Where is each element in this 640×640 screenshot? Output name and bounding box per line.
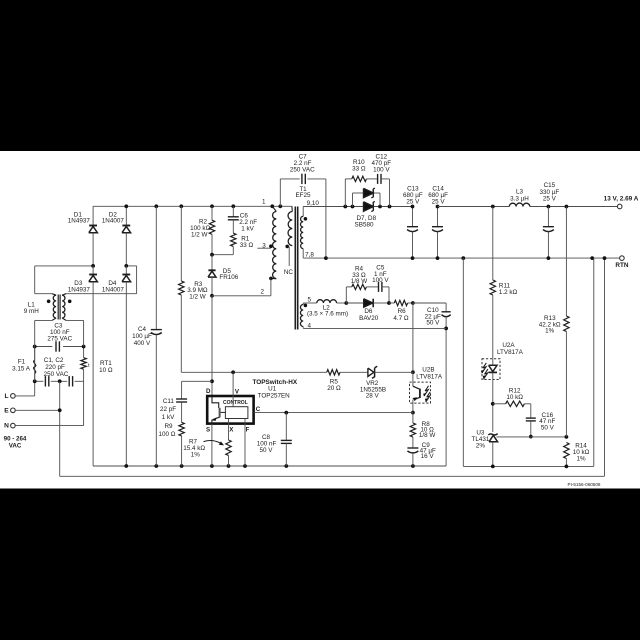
- wire HV+ rail: [93, 205, 292, 207]
- wire N to right column: [15, 425, 83, 427]
- wire secondary 9,10 rail: [303, 206, 363, 208]
- resistor R6: [394, 300, 407, 305]
- svg-text:1N4007: 1N4007: [102, 287, 125, 294]
- wire E to earth node: [15, 409, 60, 411]
- resistor R3: [180, 206, 182, 281]
- wire primary return rail: [93, 465, 446, 467]
- svg-text:SB580: SB580: [355, 222, 374, 229]
- svg-text:1N4007: 1N4007: [102, 218, 125, 225]
- wire AC node A: [35, 265, 93, 267]
- diode D2: [125, 206, 127, 225]
- svg-text:100 V: 100 V: [373, 167, 390, 174]
- inductor L3: [509, 203, 530, 206]
- svg-text:16 V: 16 V: [421, 453, 435, 460]
- svg-text:EF25: EF25: [295, 192, 311, 199]
- wire C3 box left side: [34, 347, 36, 382]
- svg-text:1N4937: 1N4937: [68, 218, 91, 225]
- capacitor C6: [232, 206, 234, 217]
- svg-text:1 kV: 1 kV: [241, 226, 254, 233]
- shunt regulator U3 TL431: [488, 434, 497, 435]
- svg-text:25 V: 25 V: [432, 199, 446, 206]
- U1 S pin wire: [211, 424, 213, 466]
- U1 V pin wire: [232, 372, 234, 396]
- svg-text:CONTROL: CONTROL: [223, 400, 248, 406]
- capacitor C11 resistor R9 branch: [182, 380, 212, 382]
- capacitor C16: [526, 417, 536, 419]
- svg-text:1/2 W: 1/2 W: [191, 231, 208, 238]
- svg-text:1N4937: 1N4937: [68, 287, 91, 294]
- resistor R5: [181, 371, 326, 373]
- svg-text:50 V: 50 V: [426, 320, 440, 327]
- svg-text:TOP257EN: TOP257EN: [258, 392, 291, 399]
- terminal RTN: [620, 256, 625, 261]
- capacitor C10: [445, 303, 447, 311]
- svg-text:U2B: U2B: [422, 367, 434, 374]
- svg-text:1%: 1%: [191, 451, 201, 458]
- capacitor C14: [437, 207, 439, 227]
- output terminal 13V: [617, 204, 622, 209]
- svg-text:N: N: [4, 423, 9, 430]
- svg-text:1/8 W: 1/8 W: [351, 278, 368, 285]
- capacitor C13: [412, 207, 414, 227]
- svg-text:VAC: VAC: [9, 443, 22, 450]
- wire earth vertical: [59, 381, 61, 476]
- choke L1: [34, 266, 36, 294]
- svg-text:13 V, 2.69 A: 13 V, 2.69 A: [604, 196, 639, 203]
- svg-text:50 V: 50 V: [260, 447, 274, 454]
- wire AC node B: [126, 265, 136, 267]
- wire L to fuse column: [15, 395, 35, 397]
- wire bias pin4: [303, 327, 446, 329]
- wire to C10: [413, 302, 446, 304]
- fuse F1: [34, 347, 36, 361]
- wire L3 to output: [530, 206, 618, 208]
- diode D3: [92, 266, 94, 275]
- wire RTN rail: [303, 257, 619, 259]
- U1 X pin wire / resistor R7: [228, 419, 230, 440]
- svg-text:L: L: [4, 393, 8, 400]
- diode D4: [125, 266, 127, 275]
- T1 primary tap 3: [269, 244, 273, 248]
- svg-text:4.7 Ω: 4.7 Ω: [393, 315, 409, 322]
- snubber R4 C5 branch: [345, 287, 347, 303]
- wire LED to TL431: [492, 380, 494, 432]
- diode D7 parallel branch: [352, 193, 354, 207]
- T1 secondary winding: [302, 207, 304, 217]
- wire bias pin5: [303, 302, 317, 304]
- capacitor C8: [285, 413, 287, 441]
- wire drain node: [211, 296, 213, 396]
- wire bias to opto collector: [412, 303, 414, 372]
- svg-text:R9: R9: [164, 423, 173, 430]
- T1 bias winding: [302, 303, 304, 305]
- svg-text:100 Ω: 100 Ω: [159, 431, 176, 438]
- svg-text:1/2 W: 1/2 W: [189, 294, 206, 301]
- svg-text:28 V: 28 V: [366, 393, 380, 400]
- wire to L3: [438, 206, 510, 208]
- resistor R2: [211, 206, 213, 220]
- inductor L2: [317, 300, 337, 303]
- R7 pointer arrow: [204, 441, 221, 444]
- svg-text:C4: C4: [138, 326, 147, 333]
- svg-text:20 Ω: 20 Ω: [327, 385, 341, 392]
- svg-text:3.15 A: 3.15 A: [12, 365, 31, 372]
- svg-text:10 kΩ: 10 kΩ: [506, 394, 523, 401]
- snubber R10 C12 branch: [344, 179, 346, 207]
- svg-text:FR106: FR106: [219, 274, 238, 281]
- svg-text:(3.5 × 7.6 mm): (3.5 × 7.6 mm): [307, 311, 348, 318]
- svg-text:C1, C2: C1, C2: [44, 357, 64, 364]
- svg-text:2%: 2%: [476, 443, 486, 450]
- svg-text:250 VAC: 250 VAC: [290, 166, 315, 173]
- resistor R11: [492, 207, 494, 281]
- capacitor C7: [279, 179, 281, 206]
- svg-text:9 mH: 9 mH: [24, 308, 39, 315]
- optocoupler U2A LED: [482, 359, 500, 380]
- optocoupler U2B: [410, 382, 431, 403]
- svg-text:3.3 µH: 3.3 µH: [510, 196, 529, 203]
- T1 second half winding NC: [291, 205, 293, 207]
- svg-text:7,8: 7,8: [305, 252, 314, 259]
- svg-text:275 VAC: 275 VAC: [47, 335, 72, 342]
- T1 primary winding: [272, 206, 276, 211]
- diode D8: [364, 202, 374, 212]
- svg-text:1%: 1%: [576, 456, 586, 463]
- svg-text:LTV817A: LTV817A: [497, 349, 524, 356]
- wire REF line to divider: [531, 436, 567, 438]
- svg-text:LTV817A: LTV817A: [416, 374, 443, 381]
- svg-text:400 V: 400 V: [134, 340, 151, 347]
- svg-text:E: E: [4, 407, 9, 414]
- svg-text:33 Ω: 33 Ω: [240, 242, 254, 249]
- svg-text:1.2 kΩ: 1.2 kΩ: [499, 289, 518, 296]
- svg-text:C11: C11: [163, 398, 175, 405]
- svg-text:10 Ω: 10 Ω: [99, 367, 113, 374]
- diode D5: [211, 255, 213, 271]
- capacitors C1 C2: [35, 380, 44, 382]
- svg-text:50 V: 50 V: [541, 425, 555, 432]
- T1 core: [294, 207, 296, 330]
- capacitor C15: [547, 207, 549, 227]
- capacitor C9: [412, 437, 414, 447]
- svg-text:25 V: 25 V: [406, 199, 420, 206]
- svg-text:9,10: 9,10: [307, 200, 320, 207]
- svg-text:F: F: [246, 427, 250, 434]
- zener VR2: [368, 368, 374, 376]
- thermistor RT1: [83, 347, 85, 358]
- svg-text:1: 1: [262, 198, 266, 205]
- capacitor C4: [155, 206, 157, 330]
- svg-text:25 V: 25 V: [543, 195, 557, 202]
- U1 internal mosfet: [212, 396, 219, 408]
- svg-text:33 Ω: 33 Ω: [352, 166, 366, 173]
- svg-text:S: S: [206, 426, 210, 433]
- L1 polarity dots: [47, 300, 51, 304]
- svg-text:1/8 W: 1/8 W: [419, 432, 436, 439]
- resistor R14: [564, 443, 569, 459]
- resistor R12: [493, 403, 506, 405]
- svg-text:2: 2: [261, 288, 265, 295]
- svg-text:1 kV: 1 kV: [162, 414, 175, 421]
- U1 F pin wire: [244, 419, 246, 466]
- svg-text:100 V: 100 V: [372, 277, 389, 284]
- svg-text:NC: NC: [284, 269, 294, 276]
- svg-text:PI-5156-060508: PI-5156-060508: [568, 482, 601, 487]
- U1 C pin wire: [254, 412, 413, 414]
- resistor R8: [412, 413, 414, 423]
- L1 core: [57, 295, 59, 320]
- diode D1: [92, 206, 94, 225]
- svg-text:BAV20: BAV20: [359, 315, 379, 322]
- resistor R13: [565, 207, 567, 317]
- diode D6: [346, 302, 363, 304]
- svg-text:1%: 1%: [545, 328, 555, 335]
- IC U1 TOP257EN: [207, 396, 253, 424]
- svg-text:F1: F1: [18, 358, 26, 365]
- svg-text:D: D: [206, 388, 211, 395]
- resistor R1: [231, 233, 236, 246]
- wire earth run to RTN: [60, 475, 605, 477]
- svg-text:100 µF: 100 µF: [132, 333, 152, 340]
- capacitor C3: [35, 346, 53, 348]
- feedback ground return: [462, 258, 464, 466]
- svg-text:22 pF: 22 pF: [160, 406, 176, 413]
- svg-text:250 VAC: 250 VAC: [44, 371, 69, 378]
- svg-text:RTN: RTN: [615, 262, 629, 269]
